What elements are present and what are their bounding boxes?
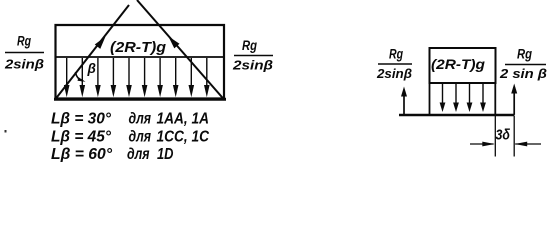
svg-text:β: β xyxy=(87,61,96,76)
svg-text:для: для xyxy=(129,129,152,146)
svg-text:Lβ = 30°: Lβ = 30° xyxy=(51,111,112,128)
svg-text:3δ: 3δ xyxy=(496,127,511,144)
svg-text:1СС, 1С: 1СС, 1С xyxy=(157,129,210,146)
svg-text:для: для xyxy=(127,146,150,162)
svg-text:для: для xyxy=(129,111,152,128)
svg-text:Rg: Rg xyxy=(517,47,533,62)
svg-text:Rg: Rg xyxy=(242,38,258,53)
svg-text:2sinβ: 2sinβ xyxy=(232,58,273,73)
svg-text:Lβ = 60°: Lβ = 60° xyxy=(51,146,113,162)
svg-text:(2R-T)g: (2R-T)g xyxy=(110,40,166,56)
svg-text:2sinβ: 2sinβ xyxy=(376,66,412,81)
svg-text:2 sin β: 2 sin β xyxy=(499,66,547,81)
svg-text:2sinβ: 2sinβ xyxy=(4,57,44,72)
svg-text:Rg: Rg xyxy=(17,34,32,49)
svg-text:1D: 1D xyxy=(157,146,174,162)
svg-text:(2R-T)g: (2R-T)g xyxy=(431,56,485,72)
svg-text:Lβ = 45°: Lβ = 45° xyxy=(51,129,112,146)
svg-text:Rg: Rg xyxy=(389,47,404,62)
svg-text:1АА, 1А: 1АА, 1А xyxy=(157,111,210,128)
